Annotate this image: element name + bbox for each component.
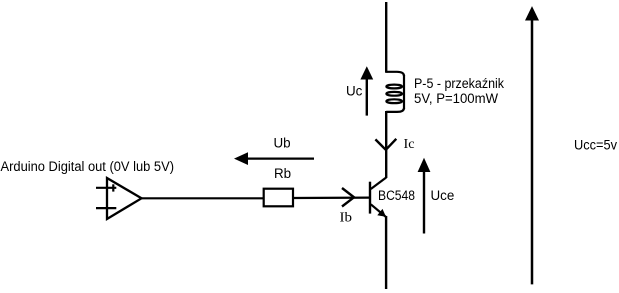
relay coil L1 loop 2: [386, 92, 402, 96]
svg-text:Arduino Digital out (0V lub 5V: Arduino Digital out (0V lub 5V): [1, 159, 175, 174]
svg-text:Ib: Ib: [340, 210, 353, 225]
relay coil L1 right edge: [403, 75, 405, 109]
wire: collector vertical upper (to top edge): [385, 2, 387, 73]
resistor Rb: [264, 189, 293, 207]
wire: op-amp output to resistor Rb: [141, 197, 264, 199]
svg-text:Ic: Ic: [404, 136, 415, 151]
arrowhead Ib (open, points right): [342, 188, 354, 207]
arrow Uce (points up): [423, 171, 425, 234]
relay coil L1 loop 1: [386, 85, 402, 89]
wire: emitter vertical: [385, 216, 387, 289]
svg-text:Ucc=5v: Ucc=5v: [574, 137, 617, 152]
transistor Q1 emitter arrowhead: [377, 209, 386, 217]
svg-text:Uce: Uce: [431, 188, 455, 203]
svg-text:Rb: Rb: [274, 166, 291, 181]
wire: resistor Rb to transistor base: [294, 197, 370, 200]
op-amp non-inverting input stub: [96, 187, 116, 189]
relay coil L1 bottom stub: [386, 108, 404, 112]
wire: collector vertical lower (coil to transistor): [385, 111, 387, 178]
svg-text:Uc: Uc: [346, 83, 363, 98]
op-amp inverting input stub (minus): [96, 207, 116, 209]
arrow Uc (points up): [366, 79, 368, 116]
svg-text:BC548: BC548: [378, 188, 415, 203]
op-amp U1 buffer triangle: [107, 178, 142, 219]
arrow Ub (points left): [246, 157, 314, 159]
op-amp plus sign tick: [112, 184, 114, 191]
transistor Q1 BC548 base bar: [369, 182, 371, 214]
arrowhead Ic (open V, points down): [375, 139, 396, 150]
relay coil L1 loop 3: [386, 99, 402, 103]
svg-text:Ub: Ub: [274, 136, 291, 151]
svg-text:P-5 - przekaźnik: P-5 - przekaźnik: [414, 76, 504, 91]
transistor Q1 emitter diagonal: [371, 204, 386, 217]
svg-text:5V, P=100mW: 5V, P=100mW: [414, 91, 498, 106]
arrow Ucc supply rail (points up): [531, 18, 534, 284]
transistor Q1 collector diagonal: [371, 178, 386, 190]
relay coil L1 top stub: [386, 72, 404, 76]
